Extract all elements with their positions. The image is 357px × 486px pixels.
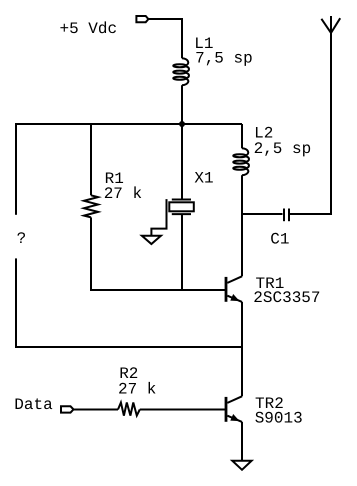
svg-text:27 k: 27 k [118, 380, 156, 398]
crystal X1 [169, 200, 194, 215]
inductor L1 [173, 58, 189, 85]
wire Data to R2 [74, 409, 119, 411]
svg-text:2,5 sp: 2,5 sp [254, 140, 312, 158]
wire [148, 19, 182, 58]
resistor R1 [84, 195, 98, 217]
svg-text:7,5 sp: 7,5 sp [195, 50, 253, 68]
inductor L2 [233, 148, 249, 175]
wire TR1 emitter to TR2 collector [241, 302, 243, 396]
ground (TR2 emitter) [232, 461, 251, 470]
wire [181, 85, 183, 124]
wire crystal case to ground [151, 199, 166, 236]
wire R1 bottom lead [91, 217, 226, 290]
svg-text:C1: C1 [270, 230, 289, 248]
resistor R2 [118, 403, 140, 416]
wire X1 top lead [181, 124, 183, 200]
power connector +5V [136, 16, 148, 22]
transistor TR2 [226, 396, 242, 422]
wire TR2 emitter lead [241, 422, 243, 460]
wire C1 right [290, 16, 331, 214]
antenna [321, 18, 340, 33]
transistor TR1 [226, 276, 242, 302]
svg-text:2SC3357: 2SC3357 [253, 289, 320, 307]
svg-text:?: ? [17, 230, 27, 248]
svg-text:X1: X1 [194, 170, 213, 188]
wire X1 bottom lead [181, 214, 183, 290]
wire top bus [15, 123, 242, 125]
svg-text:27 k: 27 k [104, 185, 142, 203]
svg-text:+5 Vdc: +5 Vdc [60, 20, 118, 38]
wire R2 to TR2 base [140, 409, 225, 411]
wire L2 top lead [241, 124, 243, 148]
wire bottom bus [15, 346, 242, 348]
svg-text:Data: Data [14, 396, 53, 414]
wire left upper [15, 124, 17, 215]
wire L2 bottom lead [241, 175, 243, 276]
ground (X1 case) [142, 236, 161, 244]
node junction [179, 121, 185, 127]
svg-text:S9013: S9013 [255, 410, 303, 428]
wire R1 top lead [90, 124, 92, 195]
capacitor C1 [284, 209, 289, 222]
connector Data [61, 406, 74, 412]
wire left lower [15, 258, 17, 347]
wire C1 left [242, 213, 283, 215]
